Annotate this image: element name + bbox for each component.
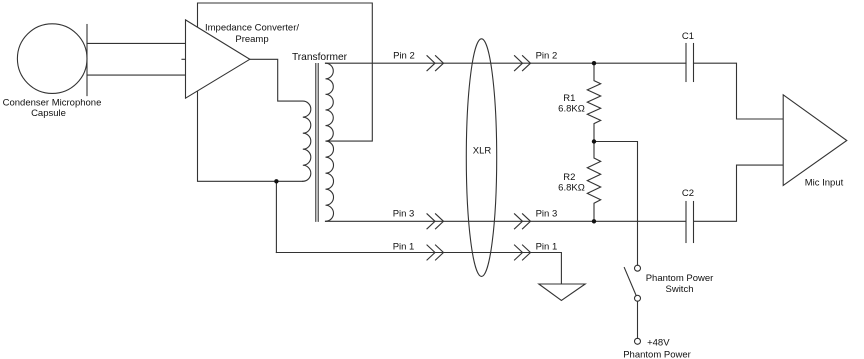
svg-text:Pin 1: Pin 1 xyxy=(536,242,558,253)
svg-text:C2: C2 xyxy=(682,188,694,199)
svg-text:Capsule: Capsule xyxy=(31,108,66,119)
svg-text:6.8KΩ: 6.8KΩ xyxy=(558,183,585,194)
svg-text:Pin 3: Pin 3 xyxy=(393,209,415,220)
svg-text:Phantom Power: Phantom Power xyxy=(623,349,691,359)
svg-text:Phantom Power: Phantom Power xyxy=(646,273,714,284)
svg-text:Impedance Converter/: Impedance Converter/ xyxy=(205,23,299,34)
svg-text:Mic Input: Mic Input xyxy=(805,178,844,189)
svg-text:+48V: +48V xyxy=(647,337,670,348)
svg-text:Pin 2: Pin 2 xyxy=(536,51,558,62)
svg-text:Condenser Microphone: Condenser Microphone xyxy=(3,97,102,108)
svg-text:Switch: Switch xyxy=(666,284,694,295)
svg-text:R1: R1 xyxy=(563,93,575,104)
svg-text:C1: C1 xyxy=(682,31,694,42)
svg-text:6.8KΩ: 6.8KΩ xyxy=(558,104,585,115)
svg-text:Pin 3: Pin 3 xyxy=(536,209,558,220)
svg-text:Pin 2: Pin 2 xyxy=(393,51,415,62)
svg-text:XLR: XLR xyxy=(473,146,492,157)
svg-text:Transformer: Transformer xyxy=(292,52,348,63)
svg-text:Preamp: Preamp xyxy=(235,34,268,45)
svg-text:Pin 1: Pin 1 xyxy=(393,242,415,253)
